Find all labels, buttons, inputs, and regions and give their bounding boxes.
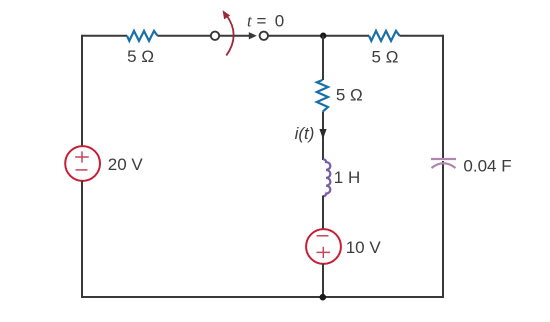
current arrow i(t): [319, 129, 326, 139]
inductor L1 1H: [323, 159, 330, 196]
wire from R3 to inductor: [322, 112, 324, 160]
wire left side upper (top-left corner to 20V source): [81, 35, 83, 147]
V2 minus sign: [317, 235, 329, 237]
wire right side lower (capacitor to bottom-right corner): [442, 161, 444, 298]
capacitor C1 curved bottom plate: [432, 163, 456, 168]
wire from 10V source to bottom node: [322, 264, 324, 297]
node B junction dot bottom: [320, 294, 327, 301]
wire from switch to node A: [268, 35, 370, 37]
wire left side lower (20V source to bottom-left corner): [81, 181, 83, 298]
svg-text:10 V: 10 V: [346, 238, 382, 257]
resistor R3 5ohm middle vertical: [317, 80, 328, 112]
wire between R1 and switch: [158, 35, 212, 37]
switch left terminal circle: [211, 32, 219, 40]
wire from R2 to top-right corner: [400, 35, 444, 37]
switch right terminal circle: [260, 32, 268, 40]
resistor R2 5ohm top-right: [369, 31, 400, 41]
wire top-left segment: [82, 35, 127, 37]
svg-text:5 Ω: 5 Ω: [336, 86, 363, 105]
switch closing curved arrow: [223, 10, 234, 55]
V1 plus sign: [75, 151, 89, 162]
wire bottom: [82, 296, 443, 298]
voltage source V1 20V circle: [65, 146, 100, 181]
resistor R1 5ohm top-left: [127, 31, 158, 41]
wire middle branch from node A to R3: [322, 36, 324, 80]
svg-text:5 Ω: 5 Ω: [372, 47, 399, 66]
switch arm wire with arrowhead: [220, 32, 257, 39]
svg-text:5 Ω: 5 Ω: [127, 47, 154, 66]
wire right side upper (corner to capacitor): [442, 35, 444, 158]
voltage source V2 10V circle: [306, 229, 341, 264]
svg-text:20 V: 20 V: [108, 155, 144, 174]
capacitor C1 top plate: [431, 158, 456, 160]
node A junction dot: [320, 33, 326, 39]
wire from inductor to 10V source: [322, 196, 324, 230]
svg-text:0.04 F: 0.04 F: [463, 156, 511, 175]
svg-text:1 H: 1 H: [334, 168, 360, 187]
V2 plus sign: [317, 247, 331, 258]
V1 minus sign: [76, 169, 88, 171]
svg-text:i(t): i(t): [295, 124, 315, 143]
